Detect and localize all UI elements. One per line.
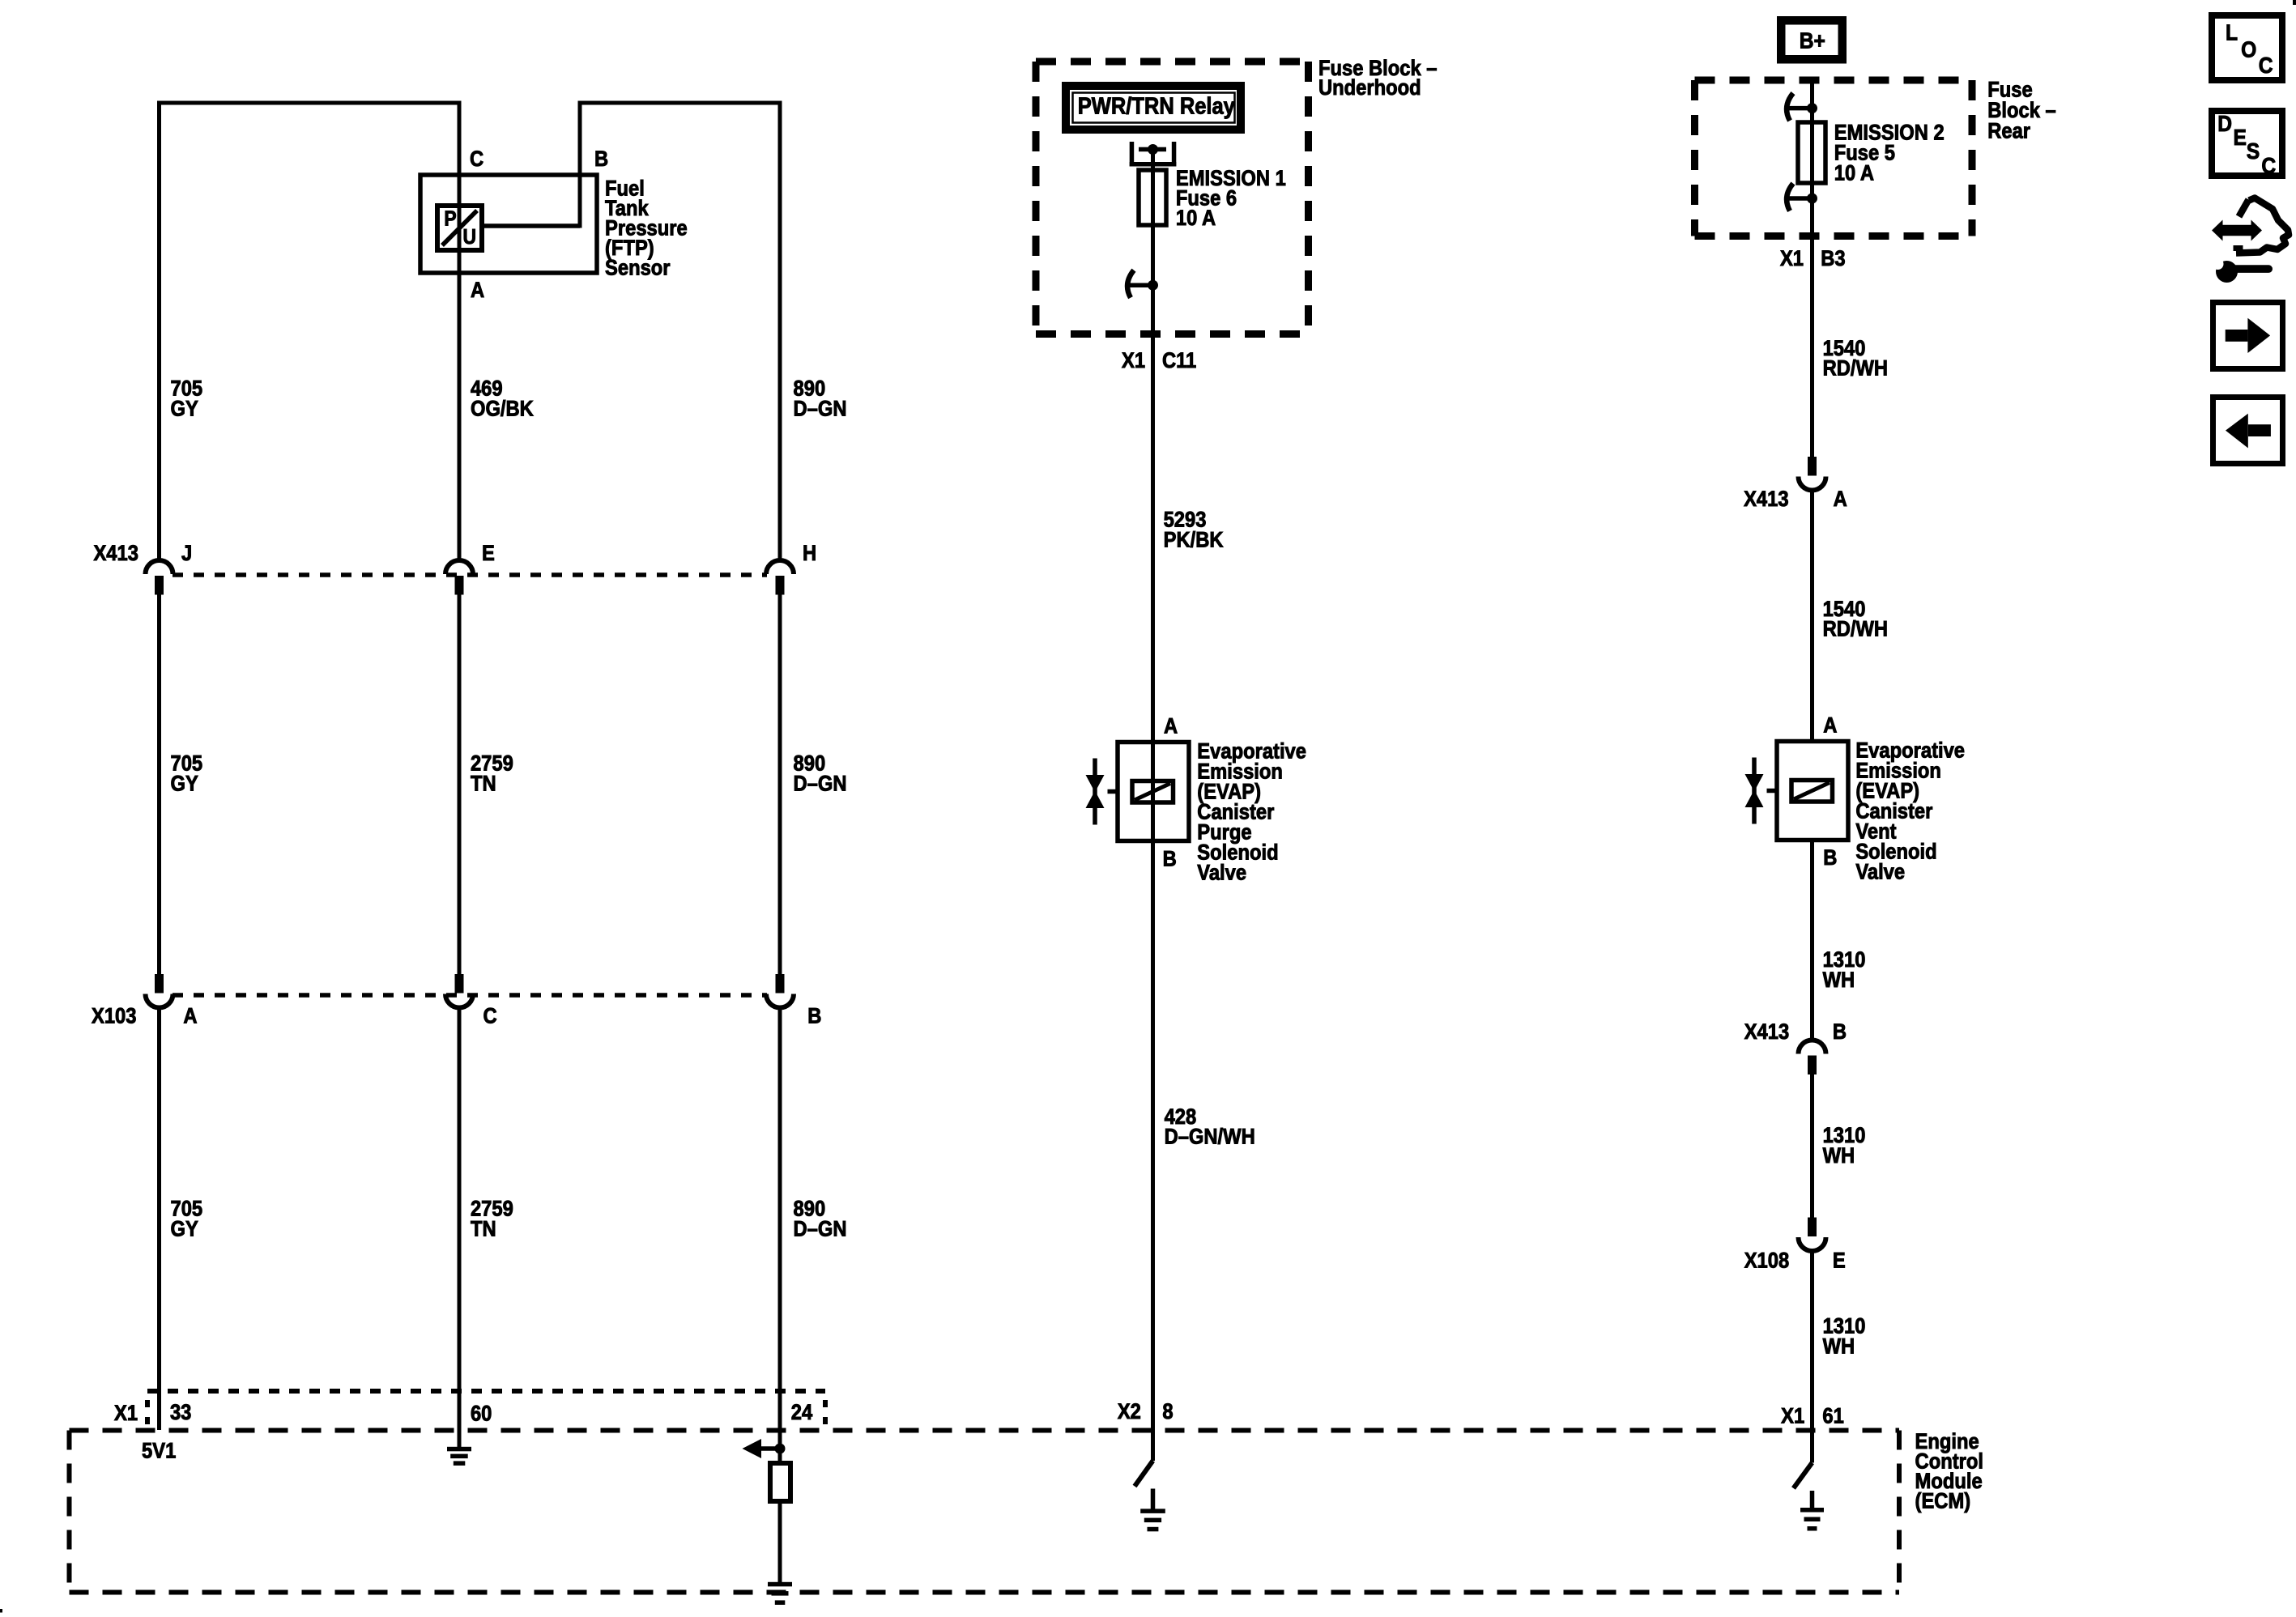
FTP sensor box <box>420 175 597 273</box>
svg-text:D–GN: D–GN <box>794 1217 847 1241</box>
connector X413 pin A (right) <box>1744 457 1847 511</box>
pin label B <box>594 147 608 172</box>
EVAP purge valve pin B label <box>1163 847 1177 871</box>
wire label 1310 WH third <box>1823 1314 1866 1359</box>
wire label 1540 RD/WH upper <box>1823 336 1888 380</box>
svg-text:GY: GY <box>170 397 198 421</box>
wire label 890 D-GN row2 <box>794 751 847 796</box>
fuse block rear input terminal <box>1787 93 1817 121</box>
svg-text:PWR/TRN Relay: PWR/TRN Relay <box>1078 92 1236 119</box>
svg-text:24: 24 <box>791 1401 812 1425</box>
svg-text:X1: X1 <box>1122 349 1145 373</box>
svg-text:Underhood: Underhood <box>1318 76 1421 100</box>
wire 2759 TN lower segment <box>458 1009 462 1449</box>
connector X103 label <box>92 1004 136 1028</box>
wire X413-B to X108-E <box>1810 1074 1814 1218</box>
svg-text:S: S <box>2247 138 2260 164</box>
ECM pin 60 label <box>471 1402 492 1426</box>
connector label X2 8 <box>1118 1400 1174 1424</box>
connector X413 label <box>93 542 138 566</box>
svg-text:B: B <box>594 147 608 172</box>
forward arrow icon box <box>2213 303 2283 369</box>
svg-text:J: J <box>181 542 192 566</box>
ECM pin 24 label <box>791 1401 812 1425</box>
EVAP vent valve pin B label <box>1823 846 1837 870</box>
connector X413 dashed line (left row) <box>173 572 767 577</box>
Fuse Block - Underhood label <box>1318 57 1438 100</box>
connector label X1 B3 <box>1780 247 1846 271</box>
DESC icon box <box>2212 110 2282 178</box>
svg-text:B: B <box>1823 846 1837 870</box>
fuse EMISSION 2 Fuse 5 <box>1798 122 1825 183</box>
ECM connector label X1 <box>114 1402 138 1426</box>
svg-text:D–GN: D–GN <box>794 772 847 796</box>
wire resistor to ground <box>778 1501 782 1582</box>
PWR/TRN Relay label <box>1078 92 1236 119</box>
wire label 1310 WH first <box>1823 948 1866 993</box>
fuse block underhood output terminal <box>1127 270 1158 298</box>
svg-text:RD/WH: RD/WH <box>1823 617 1888 641</box>
wire label 5293 PK/BK <box>1164 508 1224 552</box>
svg-text:RD/WH: RD/WH <box>1823 356 1888 381</box>
svg-text:X413: X413 <box>1744 487 1788 511</box>
wire 705 GY lower segment <box>157 1009 161 1430</box>
svg-text:D–GN/WH: D–GN/WH <box>1165 1125 1255 1149</box>
svg-text:E: E <box>482 542 495 566</box>
svg-text:P: P <box>444 207 456 231</box>
connector X413 pin J <box>146 542 193 595</box>
svg-text:10 A: 10 A <box>1176 206 1216 231</box>
svg-text:B3: B3 <box>1821 247 1845 271</box>
svg-text:WH: WH <box>1823 1334 1855 1359</box>
EVAP canister vent solenoid valve <box>1745 738 1966 884</box>
ECM connector X1 dotted line <box>147 1391 825 1428</box>
svg-text:C: C <box>483 1004 496 1028</box>
Fuse Block - Rear label <box>1987 78 2055 143</box>
connector X103 pin C <box>445 974 497 1028</box>
wire label 890 D-GN row1 <box>794 377 847 421</box>
wire 890 D-GN lower segment <box>778 1009 782 1463</box>
Fuel Tank Pressure (FTP) Sensor label <box>605 177 688 280</box>
connector X413 pin H <box>766 542 816 595</box>
svg-text:L: L <box>2226 19 2238 45</box>
svg-text:X413: X413 <box>93 542 138 566</box>
svg-text:D: D <box>2217 110 2232 136</box>
fuse EMISSION 1 Fuse 6 <box>1139 170 1166 225</box>
hand-wrench diagnostic icon <box>2212 198 2289 283</box>
page edge tick bottom-left <box>0 1609 2 1613</box>
Fuse Block - Rear dashed box <box>1695 80 1973 236</box>
B+ power symbol <box>1777 16 1847 64</box>
wire relay to ECM (middle column) <box>1151 150 1155 1462</box>
svg-text:B+: B+ <box>1800 28 1825 53</box>
wire label 1310 WH second <box>1823 1124 1866 1168</box>
ground stub X2-8 <box>1151 1489 1156 1509</box>
Fuse Block - Underhood dashed box <box>1036 62 1309 334</box>
ground in ECM at X2-8 <box>1140 1508 1165 1531</box>
svg-text:C11: C11 <box>1162 349 1196 373</box>
svg-text:C: C <box>2261 152 2276 178</box>
LOC icon box <box>2212 15 2282 80</box>
switch to ground in ECM (X2-8) <box>1135 1461 1153 1487</box>
svg-text:TN: TN <box>471 772 496 796</box>
net 5V1 label <box>142 1439 176 1463</box>
ground at ECM pin 60 <box>447 1447 471 1466</box>
connector label X1 C11 <box>1122 349 1196 373</box>
svg-text:H: H <box>803 542 816 566</box>
svg-text:B: B <box>1833 1020 1847 1045</box>
connector X103 pin B <box>766 974 821 1028</box>
wire X108-E to ECM X1-61 <box>1810 1253 1814 1463</box>
svg-text:X1: X1 <box>114 1402 138 1426</box>
svg-text:Rear: Rear <box>1987 119 2030 143</box>
EVAP purge valve pin A label <box>1164 714 1178 738</box>
svg-text:10 A: 10 A <box>1834 161 1874 185</box>
pin label A <box>471 279 484 303</box>
svg-text:TN: TN <box>471 1217 496 1241</box>
connector X413 pin E <box>445 542 495 595</box>
node dot and arrow at ECM pin 24 <box>743 1439 786 1458</box>
connector label X1 61 <box>1781 1404 1844 1428</box>
wire 705 GY / 469 OG-BK top run (FTP pins C-A loop) <box>160 103 460 560</box>
PWR/TRN Relay box <box>1066 86 1241 130</box>
wire label 2759 TN row3 <box>471 1197 513 1241</box>
wire 890 D-GN middle segment <box>778 594 782 974</box>
svg-text:D–GN: D–GN <box>794 397 847 421</box>
wire X413-A to vent valve <box>1810 491 1814 742</box>
connector X103 pin A <box>146 974 198 1028</box>
svg-text:PK/BK: PK/BK <box>1164 528 1224 552</box>
FTP sensor P/U transducer square <box>437 206 482 250</box>
svg-text:A: A <box>1834 487 1847 511</box>
svg-text:X103: X103 <box>92 1004 136 1028</box>
svg-text:WH: WH <box>1823 1144 1855 1168</box>
svg-text:(ECM): (ECM) <box>1915 1489 1971 1513</box>
EVAP canister purge solenoid valve <box>1086 739 1306 885</box>
connector X413 pin B (right) <box>1744 1020 1847 1074</box>
svg-text:E: E <box>2233 124 2246 150</box>
wire label 1540 RD/WH lower <box>1823 598 1888 641</box>
svg-text:Sensor: Sensor <box>605 256 671 280</box>
connector X103 dashed line <box>173 993 767 998</box>
ECM pin 33 label <box>170 1401 191 1425</box>
wire label 2759 TN row2 <box>471 751 513 796</box>
svg-text:A: A <box>1823 713 1837 738</box>
svg-text:Valve: Valve <box>1855 860 1905 884</box>
wire label 705 GY row2 <box>170 751 202 796</box>
wire label 469 OG/BK <box>471 377 534 421</box>
svg-text:U: U <box>462 226 476 249</box>
svg-text:A: A <box>183 1004 197 1028</box>
wire B+ to X413-A (right column) <box>1810 77 1814 457</box>
EVAP vent valve pin A label <box>1823 713 1837 738</box>
wire label 705 GY row1 <box>170 377 202 421</box>
svg-text:C: C <box>470 147 483 172</box>
svg-text:X1: X1 <box>1781 1404 1804 1428</box>
wire 890 D-GN top run (FTP pin B loop) <box>580 103 780 560</box>
ground in ECM at X1-61 <box>1800 1508 1824 1531</box>
svg-text:Valve: Valve <box>1197 861 1246 885</box>
wire 705 GY middle segment <box>157 594 161 974</box>
back arrow icon box <box>2213 398 2283 464</box>
svg-text:B: B <box>1163 847 1177 871</box>
svg-text:61: 61 <box>1822 1404 1843 1428</box>
svg-text:OG/BK: OG/BK <box>471 397 534 421</box>
svg-text:X108: X108 <box>1744 1249 1789 1273</box>
wire label 890 D-GN row3 <box>794 1197 847 1241</box>
svg-text:A: A <box>471 279 484 303</box>
wire label 428 D-GN/WH <box>1165 1105 1255 1149</box>
wire vent valve to X413-B <box>1810 840 1814 1040</box>
wire 2759 TN middle segment <box>458 594 462 974</box>
fuse EMISSION 2 label <box>1834 121 1945 185</box>
svg-text:8: 8 <box>1162 1400 1173 1424</box>
ground below resistor <box>768 1582 792 1605</box>
svg-text:X2: X2 <box>1118 1400 1141 1424</box>
svg-text:C: C <box>2259 52 2273 78</box>
fuse block rear output terminal <box>1787 184 1817 211</box>
connector X108 pin E <box>1744 1218 1846 1273</box>
svg-text:5V1: 5V1 <box>142 1439 176 1463</box>
svg-text:60: 60 <box>471 1402 492 1426</box>
svg-text:X413: X413 <box>1744 1020 1789 1045</box>
fuse EMISSION 1 label <box>1176 167 1286 231</box>
svg-text:X1: X1 <box>1780 247 1804 271</box>
FTP sensor internal wire to pin B <box>482 223 580 228</box>
Engine Control Module (ECM) label <box>1915 1430 1983 1513</box>
relay output terminal bracket <box>1130 142 1177 167</box>
svg-text:A: A <box>1164 714 1178 738</box>
switch to ground in ECM (X1-61) <box>1794 1463 1813 1489</box>
svg-text:O: O <box>2241 36 2256 62</box>
svg-text:33: 33 <box>170 1401 191 1425</box>
resistor in ECM (pin 24 pull) <box>770 1463 790 1501</box>
svg-text:B: B <box>807 1004 821 1028</box>
wire label 705 GY row3 <box>170 1197 202 1241</box>
svg-text:WH: WH <box>1823 968 1855 993</box>
Engine Control Module (ECM) dashed box <box>70 1431 1900 1593</box>
pin label C <box>470 147 483 172</box>
ground stub X1-61 <box>1810 1491 1815 1508</box>
svg-text:E: E <box>1833 1249 1846 1273</box>
svg-text:GY: GY <box>170 1217 198 1241</box>
svg-text:GY: GY <box>170 772 198 796</box>
page edge tick top-right <box>2293 0 2296 5</box>
